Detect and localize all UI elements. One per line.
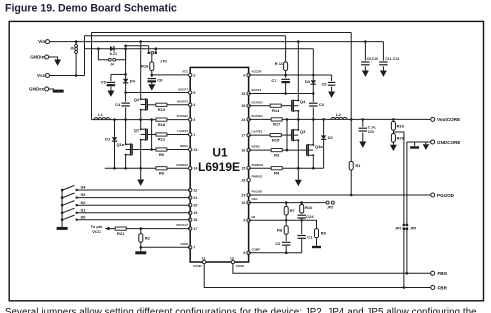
pin 23 circle — [247, 193, 250, 196]
pin 25 circle — [247, 104, 250, 107]
svg-text:L2: L2 — [336, 112, 341, 117]
junction C7 boot row — [284, 92, 287, 95]
svg-text:15: 15 — [241, 166, 245, 170]
capacitor C11 C13 — [379, 62, 388, 65]
junction DZ1 right node — [124, 47, 127, 50]
resistor R9b — [315, 229, 327, 238]
svg-text:S0: S0 — [81, 214, 87, 219]
pin 21 circle — [189, 196, 192, 199]
pin 1 circle — [189, 133, 192, 136]
pin 19 circle — [189, 211, 192, 214]
svg-text:C2: C2 — [275, 241, 281, 246]
wire R13 to pin 4 — [167, 104, 190, 106]
wire busD corner to JP2 — [148, 46, 150, 51]
terminal GNDcc — [45, 87, 49, 91]
wire R21 to pin 17 — [126, 228, 190, 230]
svg-text:J4: J4 — [110, 62, 114, 66]
ground R2 bar — [135, 251, 146, 254]
resistor R4 — [271, 167, 282, 176]
wire GNDCORE drop — [406, 142, 408, 225]
svg-text:L6919E: L6919E — [198, 160, 240, 174]
pin 2 number — [193, 73, 195, 77]
capacitor C9 C10 — [361, 62, 370, 65]
wire R7 to pin9 row — [285, 215, 287, 220]
resistor R11 — [284, 62, 288, 70]
pin 26 number — [241, 92, 245, 96]
junction VIN C9 — [364, 40, 367, 43]
svg-text:R17: R17 — [273, 122, 281, 127]
svg-text:JP4: JP4 — [395, 227, 401, 231]
wire S4 to pin — [77, 189, 191, 191]
switch S1 contact — [76, 212, 78, 214]
diode D1 — [105, 137, 117, 142]
svg-text:6: 6 — [243, 73, 245, 77]
svg-text:18: 18 — [193, 218, 197, 222]
resistor R20 — [391, 134, 404, 143]
svg-text:S2: S2 — [81, 200, 87, 205]
junction Vout C14 — [362, 118, 365, 121]
svg-text:Vin: Vin — [38, 39, 45, 44]
junction sense phase1 — [150, 148, 153, 151]
label net HGATE2 — [252, 100, 264, 104]
label S4 — [81, 185, 87, 190]
wire R3 to Q3a gate — [282, 149, 306, 151]
resistor R8 — [277, 226, 288, 235]
junction rail D1 — [113, 167, 116, 170]
svg-text:VSEN: VSEN — [180, 242, 188, 246]
wire to C8 — [151, 75, 153, 77]
svg-text:D1: D1 — [105, 137, 111, 142]
svg-text:14: 14 — [193, 167, 197, 171]
wire phase to D1 — [114, 120, 116, 138]
label S2 — [81, 200, 87, 205]
wire J4 branch — [98, 49, 108, 60]
pin 20 number — [193, 204, 197, 208]
pin 15 circle — [247, 166, 250, 169]
svg-text:VCCDR: VCCDR — [252, 70, 262, 74]
junction FBG JP5 — [406, 272, 409, 275]
svg-text:1: 1 — [193, 133, 195, 137]
wire pgnd2 rail — [249, 167, 272, 169]
wire LGATE1 — [147, 134, 156, 136]
wire R20 gnd stem — [392, 142, 394, 145]
svg-text:25: 25 — [241, 104, 245, 108]
svg-text:LGATE2: LGATE2 — [252, 130, 263, 134]
svg-text:R19: R19 — [397, 123, 405, 128]
pin 26 circle — [247, 92, 250, 95]
svg-text:J P2: J P2 — [160, 60, 167, 64]
switch S2 contact — [76, 204, 78, 206]
wire arrow stem gndcore — [425, 142, 427, 144]
caption text (clipped at page bottom) — [5, 307, 477, 313]
pin 8 number — [243, 251, 245, 255]
svg-text:S3: S3 — [81, 192, 87, 197]
pin 3 number — [193, 118, 195, 122]
svg-text:20: 20 — [193, 204, 197, 208]
terminal PGOOD — [431, 193, 435, 197]
wire S3 to pin — [77, 197, 191, 199]
wire C1 to pin8 row — [301, 238, 303, 253]
transistor Q3a — [307, 144, 324, 156]
svg-text:ISEN1: ISEN1 — [180, 144, 189, 148]
svg-text:R9: R9 — [321, 231, 327, 236]
svg-text:U1: U1 — [212, 146, 228, 160]
jumper JP3 — [326, 201, 334, 209]
wire BOOT1 to pin 5 — [126, 92, 191, 94]
junction R2 bottom — [140, 246, 143, 249]
svg-text:R16: R16 — [141, 64, 149, 69]
svg-text:C3: C3 — [319, 102, 325, 107]
wire D2 to rail — [323, 140, 325, 169]
pin 20 circle — [189, 204, 192, 207]
node PGOOD label — [437, 193, 455, 198]
junction busD on column — [124, 45, 127, 48]
label net PGNDS1 — [176, 163, 188, 167]
ground phase1 power — [137, 180, 144, 186]
wire C9 gnd stem — [364, 66, 366, 70]
junction Vout busA — [350, 118, 353, 121]
svg-text:R4: R4 — [274, 170, 280, 175]
ground GNDCORE arrow — [423, 144, 430, 150]
junction D4 C5 node — [124, 73, 127, 76]
junction phase2 sense — [286, 118, 289, 121]
label net PHASE1 — [177, 114, 189, 118]
svg-text:R9: R9 — [159, 171, 165, 176]
pin 24 number — [241, 118, 245, 122]
junction pin2 node — [151, 74, 154, 77]
jumper JP4 JP5 — [395, 224, 416, 231]
wire D3 to boot2 — [312, 85, 314, 94]
label S1 — [81, 207, 87, 212]
ground C6 — [328, 92, 335, 98]
wire pin 9 row — [249, 219, 302, 221]
ground C14 — [359, 142, 366, 148]
wire J6 vertical — [75, 42, 77, 76]
svg-text:C11..C13: C11..C13 — [385, 57, 399, 61]
ground R9b tbar — [312, 246, 321, 248]
wire R8 stem — [285, 220, 287, 226]
svg-text:R12: R12 — [158, 137, 166, 142]
svg-text:R 11: R 11 — [275, 61, 284, 66]
svg-text:JP3: JP3 — [327, 205, 333, 209]
label DZ1 — [110, 52, 117, 56]
svg-text:OSC/FLT: OSC/FLT — [176, 223, 188, 227]
svg-text:Q2: Q2 — [134, 97, 140, 102]
svg-text:PGND: PGND — [193, 264, 201, 268]
label net HGATE1 — [177, 99, 189, 103]
ground C9 — [362, 71, 369, 77]
svg-text:R2: R2 — [145, 235, 151, 240]
svg-text:28: 28 — [241, 178, 245, 182]
junction VIN drop phase1 — [139, 40, 142, 43]
pin 9 circle — [247, 219, 250, 222]
wire D1 to rail — [114, 142, 116, 169]
junction FBR JP4 — [403, 286, 406, 289]
resistor R1 — [349, 161, 361, 170]
svg-text:R14: R14 — [272, 108, 280, 113]
label R11 — [275, 61, 284, 66]
svg-text:FBR: FBR — [438, 285, 448, 290]
svg-text:C23: C23 — [368, 130, 374, 134]
wire GNDin to ground — [49, 57, 58, 60]
label net LGATE2 — [252, 130, 263, 134]
wire JP2 to R16 — [151, 54, 153, 62]
wire to C4 — [125, 93, 127, 102]
svg-text:HGATE2: HGATE2 — [252, 100, 264, 104]
transistor Q1 — [134, 128, 148, 141]
pin 7 circle — [189, 246, 192, 249]
pin 18 number — [193, 218, 197, 222]
svg-text:R18: R18 — [158, 122, 166, 127]
jumper JP2 — [147, 51, 167, 63]
wire Q3a source to rail — [312, 155, 314, 168]
wire phase to Q1a drain — [125, 120, 127, 145]
wire PGOOD row — [249, 194, 431, 196]
terminal VoutCORE — [431, 117, 435, 121]
svg-text:12: 12 — [230, 256, 234, 260]
svg-text:5: 5 — [193, 91, 195, 95]
svg-text:C4: C4 — [115, 102, 121, 107]
label net BOOT1 — [178, 88, 188, 92]
ground phase2 power — [295, 180, 302, 186]
wire rail to ground stem — [140, 168, 142, 179]
resistor R17 — [271, 118, 282, 127]
wire FB to R9b — [302, 220, 317, 229]
svg-text:8: 8 — [243, 251, 245, 255]
pin 24 circle — [247, 118, 250, 121]
wire C14 gnd stem — [362, 132, 364, 141]
wire JP2 to 5V line — [155, 49, 157, 52]
wire Q2 source to phase — [140, 110, 142, 120]
svg-text:D2: D2 — [328, 135, 334, 140]
label net VCC — [182, 70, 188, 74]
junction phase1 Q2 — [139, 118, 142, 121]
wire HGATE2 — [249, 105, 270, 107]
label net OSC pin10 — [252, 197, 258, 201]
pin 14 circle — [189, 167, 192, 170]
wire HGATE1 — [147, 104, 156, 106]
wire to pin 7 — [141, 246, 190, 248]
svg-text:S1: S1 — [81, 207, 87, 212]
junction pin5 row — [124, 91, 127, 94]
node GNDCORE label — [437, 140, 460, 145]
wire C6 stem — [331, 75, 333, 81]
node GNDin label — [30, 55, 44, 60]
junction R7 top — [285, 201, 288, 204]
svg-text:R1: R1 — [355, 163, 361, 168]
junction phase2 Q4 — [297, 118, 300, 121]
resistor R10 — [300, 204, 313, 213]
wire C11 stem — [382, 42, 384, 61]
wire Q1a gate to sense node — [132, 149, 156, 151]
wire boot2 to C3 — [312, 94, 314, 102]
svg-text:BOOT2: BOOT2 — [252, 88, 262, 92]
wire R2 bottom stem — [140, 242, 142, 247]
svg-text:9: 9 — [243, 219, 245, 223]
wire R9 to pin 14 — [167, 167, 190, 169]
pin 12 number — [230, 256, 234, 260]
wire C9 stem — [364, 42, 366, 61]
wire C6 gnd stem — [331, 87, 333, 92]
junction phase2 D2 — [322, 118, 325, 121]
switch S2 blade — [63, 201, 75, 206]
label net ISEN2 — [252, 145, 261, 149]
wire S0 to pin — [77, 219, 191, 221]
pin 15 number — [241, 166, 245, 170]
inductor L2 — [331, 112, 347, 119]
wire pin 10 row — [249, 202, 326, 204]
svg-text:19: 19 — [193, 211, 197, 215]
svg-text:21: 21 — [193, 196, 197, 200]
wire R16 to pin2 row — [151, 71, 153, 75]
resistor R19 — [391, 122, 404, 131]
switch S3 contact — [76, 196, 78, 198]
wire bus JP2 feed — [126, 45, 149, 47]
svg-text:GNDin: GNDin — [30, 55, 44, 60]
wire pgnd rail — [105, 167, 156, 169]
svg-text:Q1a: Q1a — [116, 142, 124, 147]
pin 19 number — [193, 211, 197, 215]
svg-text:LGATE1: LGATE1 — [177, 129, 188, 133]
wire pin 26 row — [249, 93, 314, 95]
svg-text:23: 23 — [241, 193, 245, 197]
ground C8 — [148, 84, 155, 90]
op-amp U1 L6919E controller IC — [190, 67, 248, 262]
pin 17 circle — [189, 227, 192, 230]
node FBG label — [438, 271, 448, 276]
svg-text:R10: R10 — [305, 205, 313, 210]
capacitor C8 — [148, 78, 164, 83]
svg-text:11: 11 — [201, 256, 205, 260]
label net PWRGD pin28 — [252, 175, 263, 179]
svg-text:2: 2 — [193, 73, 195, 77]
label S3 — [81, 192, 87, 197]
svg-text:Figure 19. Demo Board Schemati: Figure 19. Demo Board Schematic — [5, 3, 177, 15]
svg-text:C9,C10: C9,C10 — [367, 57, 378, 61]
svg-text:C24: C24 — [306, 214, 314, 219]
junction D3 pin6 row — [312, 74, 315, 77]
svg-text:C1: C1 — [307, 234, 313, 239]
pin 5 number — [193, 91, 195, 95]
svg-text:D Z1: D Z1 — [110, 52, 117, 56]
diode D4 — [123, 79, 136, 84]
svg-text:3: 3 — [193, 118, 195, 122]
figure title — [5, 3, 177, 15]
wire VIN to Q2 drain — [140, 42, 142, 100]
ground GNDin — [54, 60, 61, 66]
svg-text:C8: C8 — [157, 78, 163, 83]
wire C1 stem — [301, 220, 303, 234]
wire bus Vout left drop to L1 — [91, 33, 93, 120]
label C14 C23 — [368, 126, 376, 134]
wire phase to Q1 drain — [140, 120, 142, 130]
wire pin 8 row — [249, 252, 302, 254]
wire D4 to pin5 row — [125, 83, 127, 93]
junction Vout R19 — [392, 118, 395, 121]
wire R18 to pin 3 — [167, 119, 190, 121]
svg-text:R7: R7 — [290, 208, 296, 213]
wire phase1 to sense — [151, 120, 153, 150]
label net PHASE2 — [252, 114, 264, 118]
wire switch common — [61, 190, 63, 227]
wire S2 to pin — [77, 204, 191, 206]
svg-text:BOOT1: BOOT1 — [178, 88, 188, 92]
wire R1 to PGOOD — [350, 170, 352, 195]
pin 16 number — [241, 149, 245, 153]
junction D3 boot2 — [312, 92, 315, 95]
wire GNDcc to ground — [49, 88, 54, 90]
wire Q4 source to phase2 — [297, 111, 299, 120]
wire R19 stem — [392, 119, 394, 121]
junction DZ1 left node — [97, 47, 100, 50]
switch S4 blade — [63, 185, 75, 190]
resistor R2 — [139, 234, 151, 243]
wire R10 to C24 — [301, 212, 303, 215]
svg-text:FB: FB — [252, 215, 256, 219]
wire rail right — [282, 167, 323, 169]
pin 3 circle — [189, 118, 192, 121]
junction VIN drop phase2 — [297, 40, 300, 43]
wire pin 11 to FBR — [204, 264, 431, 288]
capacitor C14 C23 — [359, 128, 368, 131]
pin 18 circle — [189, 218, 192, 221]
pin 22 number — [193, 188, 197, 192]
svg-text:R8: R8 — [277, 228, 283, 233]
capacitor C3 — [309, 102, 325, 107]
node Vin label — [38, 39, 45, 44]
pin 10 number — [241, 201, 245, 205]
capacitor C24 — [297, 214, 314, 219]
wire C7 to boot row — [285, 82, 287, 93]
resistor R12 — [156, 133, 167, 142]
resistor R14 — [270, 104, 281, 113]
jumper J6 — [70, 44, 78, 53]
svg-text:GNDCORE: GNDCORE — [437, 140, 460, 145]
junction phase2 C3 — [312, 118, 315, 121]
junction phase1 C4 — [124, 118, 127, 121]
svg-text:J6: J6 — [70, 46, 74, 50]
label net PGND pin11 — [193, 264, 201, 268]
wire VIN to Q4 drain — [297, 42, 299, 101]
ground GNDCORE tbar — [410, 146, 419, 148]
pin 6 number — [243, 73, 245, 77]
terminal FBR — [431, 286, 435, 290]
resistor R13 — [156, 103, 167, 112]
svg-text:Several jumpers allow setting: Several jumpers allow setting different … — [5, 307, 477, 313]
svg-text:Q4: Q4 — [300, 99, 306, 104]
resistor R18 — [156, 118, 167, 127]
label net ISEN1 — [180, 144, 189, 148]
wire phase2 node — [282, 118, 431, 120]
svg-text:R3: R3 — [274, 152, 280, 157]
svg-text:PGNDS2: PGNDS2 — [252, 163, 264, 167]
pin 5 circle — [189, 91, 192, 94]
diode D3 — [305, 79, 316, 84]
pin 7 number — [193, 246, 195, 250]
pin 13 circle — [189, 148, 192, 151]
junction switch S0 — [61, 218, 64, 221]
wire C5 stem — [110, 74, 112, 81]
svg-text:C 14,: C 14, — [368, 126, 376, 130]
label net BOOT2 — [252, 70, 262, 74]
wire Vcc — [50, 75, 85, 77]
transistor Q4 — [292, 99, 307, 112]
wire phase2 to Q3 drain — [297, 119, 299, 129]
wire C24 to pin9 row — [301, 218, 303, 220]
junction C2 bottom — [285, 252, 288, 255]
svg-text:OSC: OSC — [252, 197, 258, 201]
diode DZ1 — [110, 46, 114, 51]
